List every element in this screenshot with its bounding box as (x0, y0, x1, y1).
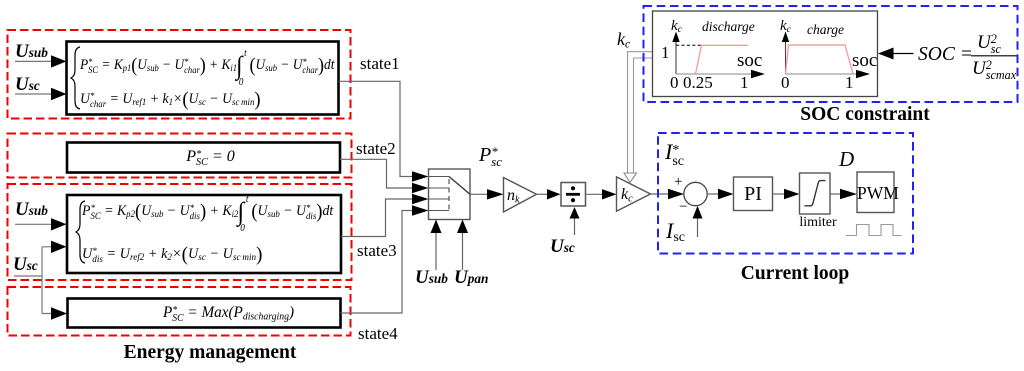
wire k_c to sum (651, 193, 670, 195)
wire state3 to mux input3 (341, 199, 413, 237)
mux selector dashed line (448, 179, 450, 211)
label k_c above wire (617, 29, 630, 55)
wire I_sc into sum (697, 218, 699, 237)
equation box2 (74, 147, 347, 167)
label U_sc (box1) (15, 75, 40, 94)
PI block (734, 177, 773, 211)
wire SOC equation to box (893, 53, 914, 55)
wire mux output (470, 193, 488, 195)
arrowhead mux input4 (412, 205, 429, 215)
mux input stubs (429, 177, 450, 211)
label PWM (857, 185, 894, 203)
arrowhead into PI (718, 189, 734, 199)
wire state1 to mux input1 (339, 81, 414, 176)
wire limiter to PWM (830, 193, 841, 195)
wire PI to limiter (773, 193, 786, 195)
charge x labels (781, 74, 790, 91)
limiter block (800, 173, 831, 214)
mux bottom arrow U_sub (435, 231, 437, 270)
label I_sc (666, 221, 685, 247)
SOC equation text (918, 45, 973, 65)
label U_sub arrow into box3 (15, 223, 52, 225)
label U_sub (box3) (15, 200, 48, 219)
label state1 (360, 55, 400, 72)
SOC graphs solid box (653, 11, 878, 97)
sum minus sign (679, 200, 687, 215)
SOC equation numerator (977, 33, 1001, 55)
discharge x labels (670, 74, 679, 91)
label D (839, 149, 854, 169)
discharge label (702, 17, 755, 37)
discharge graph k_c label (671, 16, 682, 40)
sum plus sign (674, 175, 682, 190)
arrowhead into n_k (487, 189, 504, 199)
arrowhead into sum (668, 189, 684, 199)
label U_sc (box3) (13, 255, 38, 274)
arrowhead into limiter (784, 189, 800, 199)
PWM block (857, 172, 894, 213)
red dashed state4 group frame (8, 287, 351, 336)
fraction bar SOC equation (971, 55, 1017, 57)
arrowhead from SOC equation (878, 48, 894, 60)
brace box3 (76, 201, 85, 263)
PWM square wave glyph (846, 225, 902, 236)
label U_sub below mux (415, 268, 448, 287)
equation box 1 (67, 42, 339, 115)
red dashed state2 group frame (8, 134, 352, 178)
equation box1 line1 (80, 55, 334, 79)
mux switch block (429, 169, 471, 220)
discharge soc label (737, 51, 762, 70)
SOC equation denominator (972, 59, 1016, 81)
brace box1 (71, 47, 80, 109)
discharge curve (696, 45, 749, 74)
SOC constraint dashed frame (644, 6, 1018, 102)
mux selector diagonal (449, 177, 470, 195)
caption SOC constraint (740, 105, 990, 125)
arrowhead U_sub box1 (51, 55, 67, 67)
charge graph k_c label (780, 16, 791, 40)
wire U_sc to box3 and box4 (14, 247, 52, 314)
wire sum to PI (707, 193, 719, 195)
mux bottom arrow U_pan (462, 231, 464, 270)
wire state4 to mux input4 (341, 211, 414, 314)
label P*_sc mux output (479, 145, 502, 168)
arrowhead U_sc box3 (51, 241, 67, 253)
wire state2 to mux input2 (340, 159, 413, 188)
equation box1 line2 (80, 89, 261, 113)
limiter saturation glyph (804, 181, 825, 206)
charge label (807, 20, 844, 40)
equation box 3 (67, 195, 341, 273)
arrowhead mux input1 (412, 171, 429, 181)
red dashed state3 group frame (8, 184, 352, 280)
wire n_k to divide (537, 193, 549, 195)
discharge graph axes (675, 38, 677, 74)
equation box4 (99, 303, 358, 327)
discharge 1 tick (661, 44, 670, 61)
wire U_sc into divide (574, 218, 576, 235)
arrowhead into k_c (602, 189, 617, 199)
arrowhead U_sc box4 (51, 307, 67, 319)
discharge dashed level line (676, 44, 702, 46)
label state2 (356, 140, 396, 157)
arrowhead mux input3 (412, 194, 429, 204)
caption Energy management (60, 343, 360, 363)
label U_sc below divide (550, 237, 575, 256)
gain n_k triangle (504, 178, 537, 213)
wire divide to k_c (586, 193, 604, 195)
gain k_c triangle (617, 177, 651, 211)
label U_pan below mux (454, 268, 488, 287)
sum junction circle (684, 182, 707, 205)
caption Current loop (680, 264, 910, 284)
charge soc label (852, 51, 877, 70)
equation box3 line2 (82, 244, 262, 268)
divide block (561, 183, 586, 207)
label n_k inside gain (507, 186, 520, 210)
red dashed state1 group frame (8, 30, 351, 119)
label U_sub arrow into box1 (15, 60, 52, 62)
label state4 (358, 325, 398, 342)
label U_sc arrow into box1 (15, 93, 52, 95)
arrowhead into PWM (840, 189, 857, 199)
arrowhead mux input2 (412, 183, 429, 193)
label k_c inside gain (621, 185, 633, 209)
charge graph axes (785, 38, 787, 74)
label U_sub (box1) (15, 42, 48, 61)
equation box 2 (67, 143, 340, 173)
current loop dashed frame (658, 133, 913, 254)
hollow arrowhead onto k_c gain (624, 173, 637, 183)
equation box 4 (68, 299, 341, 328)
label state3 (357, 242, 397, 259)
arrowhead U_sc box1 (51, 88, 67, 100)
arrowhead U_sub box3 (51, 218, 67, 230)
charge curve (786, 45, 854, 74)
label I*_sc (665, 142, 684, 167)
label PI (734, 184, 773, 204)
equation box3 line1 (82, 201, 333, 225)
divide symbol (566, 193, 580, 196)
label limiter (799, 216, 837, 230)
double line wire k_c from SOC box (628, 52, 653, 173)
arrowhead into divide (547, 189, 561, 199)
